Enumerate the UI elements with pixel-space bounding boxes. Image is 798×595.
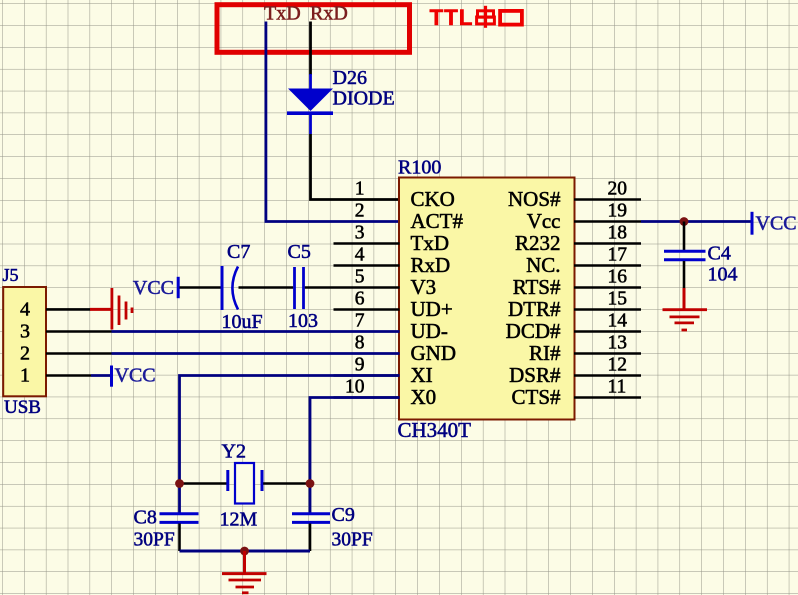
pin 10 (X0) stub + number [334, 377, 437, 409]
connector J5 pin 2 number [20, 343, 30, 365]
svg-text:14: 14 [608, 311, 628, 332]
wire: RxD net vertical down to diode anode [309, 22, 312, 76]
svg-text:CH340T: CH340T [398, 418, 472, 442]
svg-text:TxD: TxD [264, 3, 301, 25]
pin 3 (TxD) stub + number [334, 223, 450, 255]
svg-text:1: 1 [20, 365, 30, 387]
svg-text:3: 3 [20, 321, 30, 343]
svg-text:2: 2 [355, 201, 365, 222]
svg-text:J5: J5 [3, 265, 19, 285]
svg-text:ACT#: ACT# [411, 209, 464, 233]
svg-text:11: 11 [608, 377, 627, 398]
svg-text:4: 4 [355, 245, 365, 266]
wire: TxD net vertical + horizontal into pin 2 [266, 22, 400, 222]
svg-text:RxD: RxD [411, 253, 451, 277]
pin 9 (XI) stub + number [334, 355, 433, 387]
label: value DIODE [333, 88, 395, 110]
svg-text:16: 16 [608, 267, 628, 288]
svg-text:RI#: RI# [529, 341, 561, 365]
svg-text:RxD: RxD [310, 3, 348, 25]
svg-text:30PF: 30PF [134, 530, 175, 551]
label: value 10uF [222, 311, 263, 333]
svg-text:12M: 12M [220, 509, 258, 531]
wire: C8 bottom lead [178, 524, 181, 552]
pin 16 (RTS#) stub + number [513, 267, 641, 299]
capacitor C9 (30PF) [292, 514, 330, 523]
capacitor C8 (30PF) [160, 514, 199, 523]
pin 4 (RxD) stub + number [334, 245, 451, 277]
capacitor C5 (103) [295, 267, 304, 309]
svg-text:4: 4 [20, 299, 30, 321]
pin 6 (UD+) stub + number [334, 289, 453, 321]
svg-text:Vcc: Vcc [527, 209, 561, 233]
svg-text:6: 6 [355, 289, 365, 310]
junction: ground rail node [240, 547, 249, 556]
wire: J5 pin 3 to pin 7 (UD-) [46, 330, 400, 333]
svg-text:3: 3 [355, 223, 365, 244]
svg-text:5: 5 [355, 267, 365, 288]
pin 15 (DTR#) stub + number [508, 289, 641, 321]
svg-text:103: 103 [288, 310, 318, 332]
svg-text:NOS#: NOS# [508, 187, 561, 211]
svg-text:CKO: CKO [411, 187, 455, 211]
svg-text:TxD: TxD [411, 231, 450, 255]
wire: J5 pin 1 to VCC [46, 374, 110, 377]
svg-text:15: 15 [608, 289, 628, 310]
svg-text:USB: USB [4, 397, 41, 418]
wire: pin 19 (Vcc) to VCC symbol [641, 220, 751, 223]
svg-text:9: 9 [355, 355, 365, 376]
wire: C9 bottom lead [309, 524, 312, 552]
label: value 104 [708, 264, 738, 286]
ground: shield earth symbol (red, rotated) [90, 288, 132, 330]
wire: diode cathode down and into pin 1 [311, 134, 400, 200]
svg-text:R100: R100 [398, 157, 441, 179]
svg-text:C8: C8 [134, 507, 157, 529]
wire: VCC bar to C7 left plate [180, 286, 221, 289]
svg-text:20: 20 [608, 179, 628, 200]
svg-text:19: 19 [608, 201, 628, 222]
label: value USB [4, 397, 41, 418]
wire: crystal right plate to X0 junction [263, 482, 310, 485]
connector J5 pin 4 number [20, 299, 30, 321]
label: designator C8 [134, 507, 157, 529]
svg-text:VCC: VCC [115, 365, 156, 387]
connector J5 pin 3 number [20, 321, 30, 343]
svg-text:NC.: NC. [526, 253, 560, 277]
svg-text:GND: GND [411, 341, 457, 365]
pin 5 (V3) stub + number [355, 267, 436, 299]
wire: junction down to C4 [683, 222, 686, 251]
label: designator Y2 [222, 441, 246, 463]
label: designator D26 [333, 67, 367, 89]
wire: C7 to C5 [239, 286, 294, 289]
label: designator C7 [227, 241, 250, 263]
pin 8 (GND) stub + number [355, 333, 456, 365]
svg-text:C5: C5 [288, 241, 311, 263]
svg-text:UD+: UD+ [411, 297, 453, 321]
diode D26 (cathode-down power diode) [287, 74, 333, 134]
power symbol VCC (right rail) [752, 212, 797, 235]
label: part number CH340T [398, 418, 472, 442]
junction: Vcc / C4 node [680, 217, 689, 226]
net label RxD [310, 3, 348, 25]
label: value 12M [220, 509, 258, 531]
label: value 30PF (C9) [332, 530, 373, 551]
svg-text:UD-: UD- [411, 319, 448, 343]
svg-text:DIODE: DIODE [333, 88, 395, 110]
label: designator C5 [288, 241, 311, 263]
svg-text:CTS#: CTS# [511, 385, 561, 409]
capacitor C4 (104) [664, 251, 706, 260]
wire: bottom ground rail [180, 550, 311, 553]
capacitor C7 (polarized 10uF) [222, 266, 238, 310]
svg-text:13: 13 [608, 333, 628, 354]
svg-text:VCC: VCC [756, 213, 797, 235]
svg-text:7: 7 [355, 311, 365, 332]
pin 17 (NC.) stub + number [526, 245, 641, 277]
pin 20 (NOS#) stub + number [508, 179, 641, 211]
label: designator R100 [398, 157, 441, 179]
svg-text:17: 17 [608, 245, 628, 266]
connector J5 body (USB) [3, 287, 46, 396]
power symbol VCC (V3 decoupling rail) [133, 277, 178, 299]
annotation glyph: CJK char kou (port) drawn as strokes [500, 11, 522, 25]
svg-text:C9: C9 [332, 504, 355, 526]
svg-text:Y2: Y2 [222, 441, 246, 463]
ground: earth symbol below crystal (red) [222, 551, 267, 593]
pin 12 (DSR#) stub + number [509, 355, 641, 387]
pin 19 (Vcc) stub + number [527, 201, 641, 233]
wire: pin 10 (X0) left and down [310, 398, 400, 514]
svg-text:D26: D26 [333, 67, 367, 89]
IC U1 body (CH340T, designator R100) [399, 178, 575, 420]
svg-text:DCD#: DCD# [506, 319, 561, 343]
svg-text:10: 10 [345, 377, 365, 398]
net label TxD [264, 3, 301, 25]
svg-text:1: 1 [355, 179, 365, 200]
label: value 103 [288, 310, 318, 332]
pin 1 (CKO) stub + number [355, 179, 455, 211]
label: designator C9 [332, 504, 355, 526]
svg-text:2: 2 [20, 343, 30, 365]
pin 11 (CTS#) stub + number [511, 377, 641, 409]
pin 7 (UD-) stub + number [355, 311, 448, 343]
crystal Y2 (12M) [228, 463, 262, 504]
ground: earth symbol below C4 (red) [663, 288, 708, 330]
label: designator C4 [708, 243, 731, 265]
junction: XI / C8 node [175, 479, 184, 488]
svg-text:C7: C7 [227, 241, 250, 263]
pin 13 (RI#) stub + number [529, 333, 641, 365]
wire: J5 pin 2 to pin 8 (GND) [46, 352, 400, 355]
svg-text:TTL: TTL [430, 5, 474, 30]
annotation box: TTL serial port highlight [217, 5, 410, 53]
pin 18 (R232) stub + number [515, 223, 641, 255]
label: value 30PF (C8) [134, 530, 175, 551]
annotation glyph: CJK char chuan (serial) drawn as strokes [477, 6, 495, 28]
connector J5 pin 1 number [20, 365, 30, 387]
svg-text:R232: R232 [515, 231, 561, 255]
svg-text:C4: C4 [708, 243, 731, 265]
svg-text:18: 18 [608, 223, 628, 244]
svg-text:VCC: VCC [133, 277, 174, 299]
svg-text:DSR#: DSR# [509, 363, 561, 387]
power symbol VCC (USB 5V) [112, 365, 156, 387]
svg-text:V3: V3 [411, 275, 437, 299]
junction: X0 / C9 node [306, 479, 315, 488]
wire: J5 pin 4 (shield) to earth symbol [46, 308, 91, 311]
svg-text:12: 12 [608, 355, 628, 376]
svg-text:8: 8 [355, 333, 365, 354]
wire: C5 to pin 5 (V3) [305, 286, 400, 289]
svg-text:10uF: 10uF [222, 311, 263, 333]
label: designator J5 [3, 265, 19, 285]
pin 14 (DCD#) stub + number [506, 311, 641, 343]
svg-text:104: 104 [708, 264, 738, 286]
wire: pin 9 (XI) left and down [180, 376, 400, 514]
annotation text: TTL (red) [430, 5, 474, 30]
svg-text:30PF: 30PF [332, 530, 373, 551]
svg-text:RTS#: RTS# [513, 275, 561, 299]
pin 2 (ACT#) stub + number [355, 201, 464, 233]
wire: XI junction to crystal left plate [180, 482, 227, 485]
svg-text:DTR#: DTR# [508, 297, 561, 321]
svg-text:X0: X0 [411, 385, 437, 409]
wire: C4 bottom lead [683, 261, 686, 289]
svg-text:XI: XI [411, 363, 433, 387]
